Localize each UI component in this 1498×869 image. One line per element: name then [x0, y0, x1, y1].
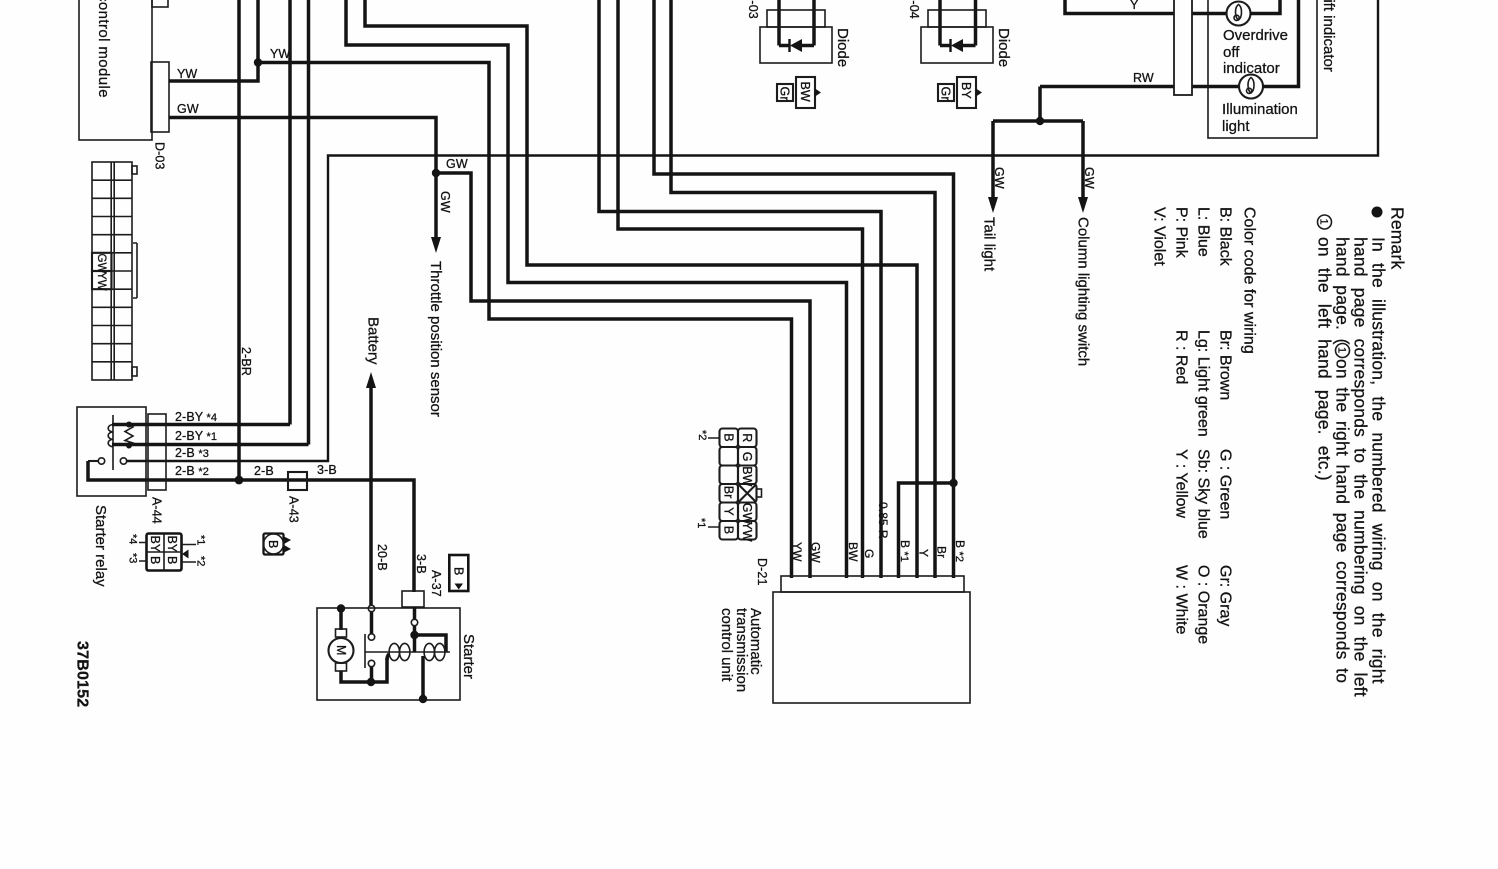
wire Y to overdrive lamp — [1065, 0, 1227, 14]
wire B*1 branch — [899, 483, 954, 578]
wire 2-B *2 — [88, 461, 414, 592]
wire YW long run to D-21 — [258, 63, 792, 579]
svg-text:Tail light: Tail light — [981, 217, 998, 272]
wire GW from control module — [169, 118, 436, 174]
svg-text:P: Pink: P: Pink — [1173, 207, 1190, 259]
svg-text:2-BR: 2-BR — [239, 347, 253, 376]
svg-text:2-B *3: 2-B *3 — [175, 446, 209, 460]
svg-text:off: off — [1223, 44, 1240, 61]
connector A-37 — [402, 591, 424, 607]
wire B*2 run — [654, 0, 954, 578]
starter box — [317, 604, 477, 703]
svg-text:R: R — [740, 433, 754, 442]
svg-text:BW: BW — [798, 82, 812, 102]
svg-text:Overdrive: Overdrive — [1223, 27, 1288, 44]
connector B symbol A-37 — [449, 555, 468, 591]
pull-in coil — [389, 643, 399, 660]
svg-text:GW: GW — [809, 542, 823, 563]
diode B-04 — [907, 0, 1012, 108]
svg-text:B: B — [722, 526, 736, 534]
control module box — [79, 0, 169, 140]
solenoid feed — [411, 619, 417, 625]
node starter feed — [337, 604, 345, 612]
armature lines — [365, 634, 450, 668]
svg-text:B: Black: B: Black — [1217, 207, 1234, 267]
svg-text:Diode: Diode — [995, 28, 1012, 67]
connector bar — [1174, 0, 1192, 95]
diode B-03 — [746, 0, 851, 108]
svg-text:YW: YW — [177, 67, 197, 81]
ATCU connector — [781, 576, 964, 592]
node 2-B junction with 2-BR — [235, 476, 244, 485]
color code block — [1151, 207, 1258, 644]
node YW junction — [254, 58, 262, 66]
svg-text:M: M — [334, 645, 348, 656]
svg-text:light: light — [1222, 118, 1250, 135]
relay coil — [108, 424, 113, 446]
svg-text:Br: Brown: Br: Brown — [1217, 330, 1234, 400]
svg-text:indicator: indicator — [1223, 60, 1280, 77]
svg-text:2-BY *1: 2-BY *1 — [175, 429, 217, 443]
connector A-44 tab — [148, 414, 166, 490]
svg-text:3-B: 3-B — [414, 554, 428, 574]
svg-text:Diode: Diode — [834, 28, 851, 67]
svg-text:Remark: Remark — [1387, 207, 1407, 270]
relay resistor zigzag — [125, 425, 133, 446]
svg-text:37B0152: 37B0152 — [74, 641, 91, 707]
svg-text:Starter: Starter — [460, 634, 477, 679]
svg-text:Illumination: Illumination — [1222, 101, 1298, 118]
wire 2-BR vertical — [237, 0, 241, 480]
svg-text:A-44: A-44 — [150, 497, 164, 524]
illumination light lamp — [1239, 75, 1263, 99]
svg-text:B: B — [266, 540, 280, 548]
svg-text:Y: Y — [917, 549, 931, 557]
remark block — [1314, 207, 1407, 697]
wire GW to tail light and column lighting switch — [1038, 87, 1042, 122]
svg-text:2-BY *4: 2-BY *4 — [175, 410, 217, 424]
svg-text:B *1: B *1 — [898, 540, 912, 562]
svg-text:V: Violet: V: Violet — [1151, 207, 1168, 266]
wire G run — [618, 0, 863, 578]
svg-text:*3: *3 — [127, 553, 139, 563]
wire 2-BY *4 — [112, 423, 166, 427]
svg-text:2-B *2: 2-B *2 — [175, 464, 209, 478]
svg-text:hand page corresponds to the n: hand page corresponds to the numbering o… — [1350, 237, 1370, 697]
wire 0.85-R run — [599, 0, 881, 578]
svg-text:In the illustration, the numbe: In the illustration, the numbered wiring… — [1368, 237, 1388, 684]
svg-text:W : White: W : White — [1173, 565, 1190, 634]
relay contacts — [98, 458, 104, 464]
svg-text:L: Blue: L: Blue — [1195, 207, 1212, 257]
svg-text:Br: Br — [722, 486, 736, 499]
ATCU box — [773, 592, 970, 703]
wire battery 20-B — [369, 388, 373, 606]
wire GW branch arrow to throttle position sensor — [434, 173, 438, 240]
svg-text:G: G — [740, 452, 754, 462]
wire Y nested run — [365, 0, 917, 578]
svg-text:B-03: B-03 — [746, 0, 760, 19]
svg-text:A-43: A-43 — [287, 496, 301, 523]
wire 2-B *3 thin long loop — [166, 0, 1378, 461]
svg-text:*4: *4 — [127, 534, 139, 544]
svg-text:GW: GW — [992, 167, 1006, 189]
wire 2-BY *1 — [112, 443, 166, 447]
svg-text:*1: *1 — [195, 535, 207, 545]
svg-text:G : Green: G : Green — [1217, 449, 1234, 519]
svg-text:Br: Br — [935, 546, 949, 558]
svg-text:Gr: Gr — [778, 87, 792, 101]
svg-text:Lg: Light green: Lg: Light green — [1195, 330, 1212, 437]
svg-text:BY: BY — [959, 82, 973, 99]
svg-text:BW: BW — [846, 542, 860, 562]
svg-text:D-21: D-21 — [755, 558, 769, 586]
svg-text:D-03: D-03 — [153, 142, 167, 170]
connector A-43 box — [288, 472, 307, 490]
svg-text:Throttle position sensor: Throttle position sensor — [427, 261, 444, 417]
wire YW from control module — [169, 63, 258, 82]
svg-text:Y : Yellow: Y : Yellow — [1173, 449, 1190, 519]
svg-text:B *2: B *2 — [953, 540, 967, 562]
svg-text:B: B — [452, 567, 466, 575]
svg-text:YW: YW — [95, 272, 107, 291]
svg-text:A-37: A-37 — [429, 570, 443, 597]
svg-text:G: G — [862, 549, 876, 558]
svg-text:R : Red: R : Red — [1173, 330, 1190, 384]
svg-text:BY: BY — [148, 536, 162, 553]
svg-text:Shift indicator: Shift indicator — [1320, 0, 1337, 72]
svg-text:YW: YW — [270, 47, 290, 61]
svg-text:BY: BY — [165, 536, 179, 553]
svg-text:*2: *2 — [195, 556, 207, 566]
svg-text:GW: GW — [177, 102, 199, 116]
svg-text:YW: YW — [740, 522, 754, 542]
starter contacts 20-B — [368, 605, 374, 611]
svg-text:Battery: Battery — [365, 317, 382, 365]
svg-text:control unit: control unit — [718, 608, 735, 682]
svg-text:O : Orange: O : Orange — [1195, 565, 1212, 644]
svg-text:*1: *1 — [695, 518, 707, 528]
svg-text:GW: GW — [1082, 167, 1096, 189]
svg-text:GW: GW — [95, 254, 107, 274]
svg-text:Color code for wiring: Color code for wiring — [1241, 207, 1258, 354]
connector D-21 grid — [720, 429, 757, 540]
svg-text:2-B: 2-B — [254, 464, 274, 478]
instrument cluster box — [1208, 0, 1317, 138]
svg-text:on the right hand page corresp: on the right hand page corresponds to — [1332, 359, 1352, 683]
wire GW long run to D-21 — [436, 173, 810, 578]
wire 2-B *3 stub — [127, 460, 166, 462]
svg-text:Column lighting switch: Column lighting switch — [1075, 217, 1092, 366]
svg-text:Gr: Gr — [939, 87, 953, 101]
svg-text:hand page. (: hand page. ( — [1332, 237, 1352, 345]
svg-text:BW: BW — [740, 466, 754, 486]
svg-text:B: B — [148, 556, 162, 564]
svg-text:1: 1 — [1336, 347, 1348, 353]
svg-text:on the left hand page. etc.): on the left hand page. etc.) — [1314, 237, 1334, 481]
svg-text:Y: Y — [1130, 0, 1139, 12]
connector strip D-03 — [92, 162, 137, 380]
svg-text:GW: GW — [438, 191, 452, 213]
svg-text:*2: *2 — [696, 430, 708, 440]
overdrive off indicator lamp — [1227, 2, 1251, 26]
connector A-44 2x2 — [147, 534, 182, 571]
hold-in coil — [424, 643, 434, 660]
node GW junction — [432, 169, 440, 177]
svg-text:20-B: 20-B — [375, 544, 389, 571]
motor M — [339, 608, 343, 630]
starter relay box — [77, 407, 146, 496]
svg-text:B: B — [722, 433, 736, 441]
svg-text:GW: GW — [446, 157, 468, 171]
svg-text:Y: Y — [722, 507, 736, 516]
svg-text:Gr: Gray: Gr: Gray — [1217, 565, 1234, 626]
connector B symbol — [264, 534, 292, 555]
svg-text:RW: RW — [1133, 71, 1154, 85]
svg-text:YW: YW — [790, 542, 804, 562]
svg-text:3-B: 3-B — [317, 463, 337, 477]
node B*2 branch — [949, 479, 957, 487]
svg-text:control module: control module — [95, 0, 112, 98]
svg-text:0.85-R: 0.85-R — [876, 502, 890, 539]
svg-text:B-04: B-04 — [907, 0, 921, 19]
svg-text:Starter relay: Starter relay — [92, 505, 109, 587]
wire YW riser to top — [256, 0, 260, 63]
wire Br run — [671, 0, 935, 578]
wire BW nested run — [346, 0, 847, 578]
labels GW YW cells — [92, 253, 112, 271]
svg-text:1: 1 — [1318, 219, 1330, 225]
svg-text:Sb: Sky blue: Sb: Sky blue — [1195, 449, 1212, 539]
wire RW — [1040, 85, 1240, 89]
svg-text:B: B — [165, 556, 179, 564]
